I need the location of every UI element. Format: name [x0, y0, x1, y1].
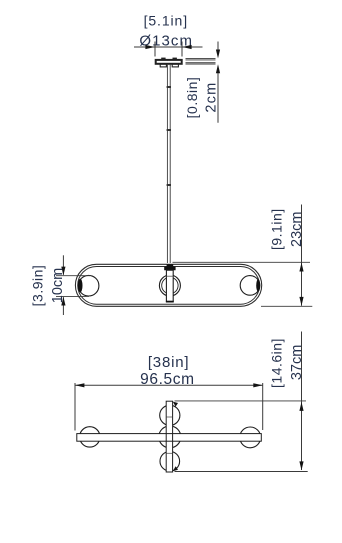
- canopy plate (side view): [156, 60, 182, 64]
- arrowhead right 96.5cm: [253, 383, 262, 387]
- svg-text:2cm: 2cm: [204, 82, 220, 113]
- rod coupler joint 3: [167, 184, 171, 186]
- stem tube bottom cap: [166, 301, 174, 303]
- cross arm tick top: [167, 416, 173, 418]
- dimension line 37cm (vertical): [301, 332, 303, 471]
- svg-text:[5.1in]: [5.1in]: [144, 13, 188, 29]
- canopy tab right: [172, 64, 178, 67]
- svg-text:[38in]: [38in]: [148, 354, 190, 371]
- re-stroke cross arm edges over main arm: [166, 434, 172, 442]
- dimension line 10cm (vertical): [62, 255, 64, 315]
- arrowhead up 37cm: [299, 402, 303, 411]
- arrowhead down 2cm: [216, 50, 220, 59]
- rod coupler joint 1: [167, 86, 171, 88]
- canopy screw bump right: [173, 58, 177, 60]
- leader arrow top at cross arm corner: [173, 402, 178, 407]
- svg-text:23cm: 23cm: [289, 211, 305, 246]
- plan view cross arm (vertical bar): [166, 401, 172, 472]
- extension line bottom for 37cm depth: [175, 471, 308, 473]
- extension line bottom for 23cm fixture height: [261, 305, 312, 307]
- plan view bottom bulb: [160, 451, 180, 471]
- svg-text:[3.9in]: [3.9in]: [30, 265, 46, 307]
- plan view main arm (horizontal bar): [77, 434, 261, 442]
- fixture body inner stadium (front view): [78, 267, 260, 305]
- plan view top bulb: [160, 405, 180, 425]
- arrowhead down 37cm: [299, 461, 303, 470]
- svg-text:[9.1in]: [9.1in]: [268, 208, 284, 250]
- right bulb circle (front view): [240, 276, 260, 296]
- svg-text:[0.8in]: [0.8in]: [184, 77, 200, 119]
- left bulb circle (front view): [78, 275, 99, 296]
- canopy screw bump left: [161, 58, 165, 60]
- arrowhead up 23cm: [299, 263, 303, 272]
- svg-text:37cm: 37cm: [289, 345, 305, 380]
- arrowhead left of Ø13cm dim: [145, 45, 154, 49]
- extension line right 96.5cm: [262, 383, 264, 430]
- svg-text:[14.6in]: [14.6in]: [268, 338, 284, 388]
- dimension line 2cm (vertical): [217, 42, 219, 123]
- plan view right end bulb: [240, 427, 261, 448]
- cross arm tick bottom: [167, 452, 173, 454]
- dimension line 96.5cm (horizontal): [75, 384, 263, 386]
- hanging rod (double line): [167, 64, 170, 263]
- arrowhead down 10cm: [61, 267, 65, 276]
- center bulb outer circle (front view): [159, 275, 180, 296]
- svg-text:10cm: 10cm: [50, 268, 66, 303]
- canopy tab left: [160, 64, 166, 67]
- dimension line Ø13cm: [134, 42, 203, 57]
- right bulb/body overlap lens (filled): [256, 279, 260, 291]
- fixture body outer stadium (front view): [75, 264, 261, 306]
- center stem collar (filled, flared): [164, 264, 175, 270]
- arrowhead up 10cm: [61, 297, 65, 306]
- arrowhead right of Ø13cm dim: [182, 45, 191, 49]
- center bulb inner circle (front view): [162, 277, 178, 293]
- plan view middle hub circle: [159, 426, 181, 448]
- leader arrow bottom at cross arm corner: [173, 466, 178, 471]
- extension line top for 23cm fixture height: [173, 261, 311, 263]
- arrowhead down 23cm: [299, 297, 303, 306]
- dimension line 23cm (vertical): [301, 205, 303, 306]
- arrowhead left 96.5cm: [75, 383, 84, 387]
- extension lines for 2cm canopy thickness: [186, 59, 216, 64]
- left bulb/body overlap lens (filled): [78, 279, 83, 293]
- rod coupler joint 2: [167, 129, 171, 131]
- extension line top for 37cm depth: [175, 400, 307, 402]
- arrowhead up 2cm: [216, 64, 220, 73]
- extension line left 96.5cm: [74, 383, 76, 431]
- plan view left end bulb: [80, 427, 100, 447]
- stem tube tick: [166, 275, 173, 277]
- center stem tube: [166, 270, 173, 301]
- extension lines for 10cm bulb diameter: [56, 276, 90, 297]
